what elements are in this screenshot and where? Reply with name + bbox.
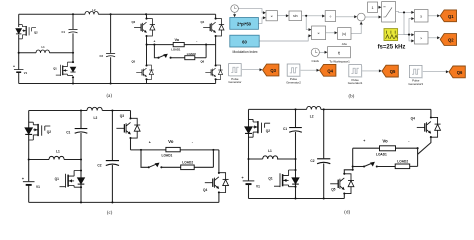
block Clock1: [231, 5, 239, 13]
wire: bottom rail: [19, 83, 216, 85]
wire: load rail: [353, 148, 418, 170]
svg-text:Q3: Q3: [120, 114, 124, 118]
block constant 1: [368, 2, 378, 12]
svg-text:Q1: Q1: [53, 66, 57, 70]
svg-text:Q4: Q4: [203, 188, 207, 192]
svg-text:Generator: Generator: [228, 80, 241, 84]
svg-text:Clock: Clock: [312, 59, 320, 63]
svg-text:LOAD1: LOAD1: [171, 48, 181, 52]
svg-text:(b): (b): [349, 95, 355, 100]
svg-text:V1: V1: [24, 71, 28, 75]
svg-text:L1: L1: [56, 150, 60, 154]
wire to LOAD2: [161, 150, 213, 167]
wire to LOAD2: [171, 45, 207, 58]
wire rel2 to tag Q2: [428, 37, 439, 39]
block Pulse Generator1: [349, 65, 362, 78]
wire product to sin: [277, 15, 287, 17]
wire pulse generator to Q3: [241, 69, 261, 71]
battery V1: [243, 181, 255, 184]
svg-text:+: +: [13, 64, 15, 68]
svg-text:To Workspace1: To Workspace1: [329, 60, 350, 64]
svg-text:L1: L1: [268, 149, 272, 153]
block switch: [382, 2, 396, 22]
wire: load rail: [131, 149, 219, 151]
svg-text:Q2: Q2: [47, 130, 51, 134]
svg-text:Modulation Index: Modulation Index: [232, 50, 257, 54]
transistor Q2 (MOSFET): [29, 122, 51, 140]
svg-text:L2: L2: [92, 8, 96, 12]
block product1: [266, 11, 277, 21]
svg-text:Q5: Q5: [331, 188, 335, 192]
block relational operator 2: [414, 32, 428, 44]
tag Q3: [263, 64, 279, 76]
capacitor C2: [323, 109, 325, 198]
svg-text:V1: V1: [36, 185, 40, 189]
tag Q1: [440, 10, 456, 22]
block Pulse Generator2: [287, 64, 300, 77]
wire switch block to relational operators: [396, 11, 413, 34]
transistor Q1 (MOSFET): [72, 53, 74, 84]
svg-text:C1: C1: [62, 30, 66, 34]
svg-text:Q6: Q6: [201, 60, 205, 64]
block repeating sequence (triangle fs): [384, 29, 398, 41]
IGBT Q5: [146, 45, 148, 84]
IGBT Q3: [146, 14, 148, 44]
block Pulse Generator3: [409, 65, 422, 78]
wire: top rail: [19, 13, 216, 15]
capacitor C2: [110, 14, 112, 83]
resistor LOAD1: [380, 146, 396, 151]
svg-text:LOAD2: LOAD2: [397, 160, 408, 164]
wire: mid rail: [19, 52, 73, 54]
switch (breaker): [353, 166, 364, 168]
svg-text:-: -: [192, 141, 194, 145]
svg-text:L2: L2: [94, 116, 98, 120]
svg-text:Q4: Q4: [327, 68, 333, 73]
transistor Q1 (MOSFET): [295, 159, 297, 199]
svg-text:Vo: Vo: [168, 139, 174, 144]
wire: top rail: [29, 110, 131, 112]
wire sum to switch block: [365, 16, 380, 18]
svg-text:Q3: Q3: [270, 68, 276, 73]
diode D1 (on left rail): [245, 127, 252, 133]
resistor LOAD1: [166, 147, 180, 151]
IGBT Q4: [430, 109, 432, 117]
wire pulse generator3 to Q6: [423, 71, 448, 73]
svg-text:LOAD1: LOAD1: [376, 152, 387, 156]
block Pulse Generator: [229, 64, 242, 77]
wire constant 2*pi*50 to product: [258, 18, 264, 24]
IGBT Q4: [215, 14, 217, 44]
resistor LOAD1: [173, 42, 184, 46]
block Clock2: [311, 48, 319, 56]
block constant 2*pi*50: [230, 18, 259, 30]
wire: mid rail: [29, 159, 81, 161]
svg-text:60: 60: [242, 39, 247, 44]
IGBT Q4: [218, 150, 220, 203]
wire rel1 to tag Q1: [428, 15, 439, 17]
wire: bottom rail: [29, 201, 219, 203]
tag Q2: [440, 34, 456, 46]
svg-text:C2: C2: [97, 164, 101, 168]
inductor L2: [307, 106, 321, 109]
svg-text:Generator2: Generator2: [286, 80, 301, 84]
wire constant1 to switch block: [378, 6, 381, 8]
resistor LOAD2: [185, 56, 195, 60]
svg-text:C1: C1: [283, 127, 287, 131]
svg-text:Q3: Q3: [132, 20, 136, 24]
transistor Q2 (MOSFET): [249, 119, 271, 137]
transistor Q2 (MOSFET): [19, 25, 36, 39]
block relational operator 1: [414, 10, 428, 22]
resistor LOAD2: [181, 165, 195, 170]
wire modulation index to product2: [259, 36, 310, 41]
svg-text:+: +: [363, 139, 365, 143]
wire: bottom rail: [249, 198, 345, 200]
tag Q4: [320, 64, 336, 76]
node dots: [80, 109, 82, 111]
capacitor C2: [111, 111, 113, 203]
capacitor C1: [72, 14, 74, 53]
svg-text:>: >: [420, 36, 422, 40]
capacitor C1: [295, 109, 297, 159]
arrowheads: [263, 11, 266, 14]
svg-text:+: +: [149, 141, 151, 145]
svg-text:V1: V1: [256, 184, 260, 188]
wire sin out: [302, 16, 324, 30]
svg-text:LOAD1: LOAD1: [162, 154, 173, 158]
wire: left rail: [28, 111, 30, 203]
block To Workspace: [328, 47, 351, 58]
transistor Q1 (MOSFET): [80, 160, 82, 203]
wire: diagonal emitter connection: [418, 137, 431, 154]
battery V1: [14, 70, 24, 73]
node junction dots: [72, 13, 74, 15]
svg-text:+: +: [22, 176, 25, 181]
block Abs: [338, 28, 351, 40]
inductor L2: [87, 107, 102, 110]
svg-text:(d): (d): [344, 211, 350, 216]
wire: mid rail: [249, 158, 296, 160]
svg-text:C1: C1: [66, 130, 70, 134]
IGBT Q3: [130, 111, 132, 150]
IGBT Q6: [215, 45, 217, 84]
inductor L1: [49, 156, 64, 159]
svg-text:Abs: Abs: [342, 42, 348, 46]
svg-text:2*pi*50: 2*pi*50: [237, 21, 252, 26]
wire: left rail: [18, 14, 20, 83]
wire: load rail: [147, 44, 216, 46]
svg-text:Q1: Q1: [268, 176, 272, 180]
svg-text:Q4: Q4: [411, 117, 415, 121]
svg-text:(a): (a): [107, 94, 113, 99]
tag Q5: [382, 65, 398, 77]
svg-text:Q2: Q2: [448, 38, 454, 43]
block divide: [325, 11, 335, 22]
svg-text:C2: C2: [310, 159, 314, 163]
svg-text:Vo: Vo: [382, 139, 388, 144]
resistor LOAD2: [395, 164, 410, 169]
svg-text:Q2: Q2: [34, 31, 38, 35]
svg-text:L2: L2: [310, 115, 314, 119]
svg-text:Q2: Q2: [266, 129, 270, 133]
wire clock down to constant: [234, 12, 236, 16]
svg-text:Vo: Vo: [175, 37, 180, 42]
svg-text:Q1: Q1: [55, 177, 59, 181]
wire: left rail: [248, 109, 250, 198]
wire triangle to relational operators: [398, 19, 413, 41]
wire divide to sum: [336, 16, 356, 18]
svg-text:-: -: [196, 39, 197, 43]
svg-text:Q1: Q1: [448, 14, 454, 19]
capacitor C1: [80, 111, 82, 160]
wire to LOAD2: [377, 148, 418, 166]
block product2: [312, 26, 326, 40]
svg-text:Q5: Q5: [132, 60, 136, 64]
svg-text:Q6: Q6: [457, 70, 463, 75]
tag Q6: [449, 66, 465, 78]
inductor L1: [36, 50, 50, 53]
svg-text:+: +: [241, 175, 244, 180]
wire: top rail: [249, 108, 431, 110]
wire product2 to abs: [326, 32, 337, 34]
svg-text:|u|: |u|: [342, 32, 346, 36]
block sin: [289, 11, 302, 21]
svg-text:≥: ≥: [420, 14, 422, 18]
wire pulse generator1 to Q5: [362, 70, 381, 72]
svg-text:L1: L1: [42, 45, 46, 49]
svg-text:LOAD2: LOAD2: [182, 160, 193, 164]
switch (breaker): [154, 45, 158, 58]
battery V1: [23, 182, 35, 185]
svg-text:Q5: Q5: [390, 69, 396, 74]
svg-text:C2: C2: [100, 54, 104, 58]
svg-text:Q4: Q4: [201, 20, 205, 24]
svg-text:(c): (c): [107, 211, 113, 216]
inductor L2: [85, 11, 99, 14]
svg-text:1: 1: [372, 6, 374, 10]
diode D1 (on left rail): [25, 128, 32, 134]
block constant Modulation Index: [230, 35, 259, 47]
wire clock2 to workspace: [319, 51, 326, 53]
wire pulse generator2 to Q4: [300, 69, 318, 71]
svg-text:Generator3: Generator3: [408, 82, 423, 86]
diode D1 (on left rail): [16, 29, 22, 34]
wire clock to product: [238, 9, 264, 13]
svg-text:-: -: [408, 139, 410, 143]
svg-text:Generator1: Generator1: [348, 81, 363, 85]
svg-text:sin: sin: [293, 14, 297, 18]
svg-text:+: +: [154, 39, 156, 43]
block sum: [357, 13, 365, 21]
IGBT Q5: [344, 170, 352, 199]
inductor L1: [263, 156, 278, 159]
svg-text:fs=25 kHz: fs=25 kHz: [378, 45, 406, 51]
svg-text:LOAD2: LOAD2: [187, 52, 197, 56]
switch (breaker): [141, 150, 149, 167]
node dots: [294, 108, 296, 110]
wire abs to sum: [351, 23, 361, 34]
